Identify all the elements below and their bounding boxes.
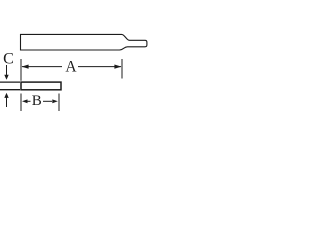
dimension A line right segment (78, 66, 121, 68)
B dimension left bar (20, 94, 22, 112)
extension line left of A (20, 59, 22, 81)
arrowhead A right (114, 65, 121, 69)
B dimension right bar (58, 94, 60, 112)
B left arrowhead (22, 99, 28, 103)
B left arrow shaft (27, 100, 31, 102)
extension line right of A (121, 59, 123, 79)
C up arrowhead (4, 93, 8, 98)
C lower extension line (0, 89, 20, 91)
C down arrow shaft (6, 65, 8, 77)
arrowhead A left (22, 65, 29, 69)
svg-text:B: B (32, 93, 42, 109)
svg-text:C: C (3, 51, 14, 68)
svg-text:A: A (65, 58, 77, 75)
cross-section rectangle B (21, 82, 61, 90)
blade outline (21, 34, 147, 50)
B right arrow shaft (43, 100, 52, 102)
C upper extension line (0, 81, 20, 83)
B right arrowhead (52, 99, 58, 103)
dimension A line left segment (22, 66, 62, 68)
C up arrow shaft (6, 97, 8, 108)
C down arrowhead (4, 75, 8, 80)
